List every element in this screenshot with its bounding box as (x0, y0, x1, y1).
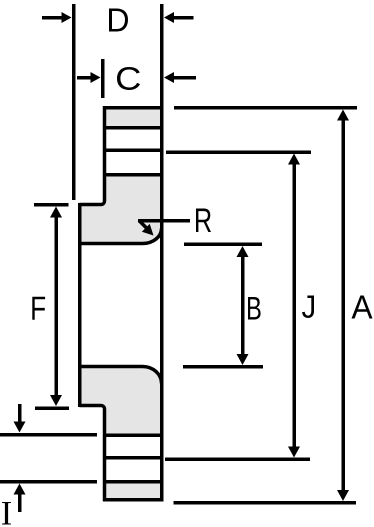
bolt hole line top 2 (103, 148, 163, 152)
flange back face (78, 203, 82, 407)
dimension D arrow left (42, 16, 63, 20)
hub bottom gray band (103, 483, 163, 501)
dimension A extension line bottom (174, 501, 357, 505)
label C (117, 67, 140, 90)
dimension J line (292, 161, 296, 450)
dimension C arrow right (173, 76, 196, 80)
dimension F extension line bottom (35, 406, 69, 410)
flange face line (160, 4, 164, 502)
label R (196, 209, 211, 233)
dimension D arrow right (173, 16, 194, 20)
dimension D extension line left (72, 4, 76, 200)
dimension F extension line top (34, 203, 69, 207)
fillet R leader line (138, 219, 190, 223)
label B (248, 297, 261, 320)
dimension A line (341, 118, 345, 492)
dimension F line (54, 214, 58, 398)
fillet R leader arrowhead (142, 224, 154, 236)
bolt hole line bottom 1 (103, 433, 163, 437)
bolt hole dimension line lower (I) (0, 480, 97, 484)
label J (302, 296, 314, 319)
lower flange gray section (80, 367, 163, 435)
label F (32, 297, 45, 320)
upper flange gray section (80, 174, 163, 244)
flange top edge (103, 106, 163, 110)
dimension A extension line top (174, 106, 357, 110)
bore line top with fillet R (80, 229, 162, 244)
dimension J extension line bottom (165, 457, 310, 461)
label D (109, 9, 128, 32)
hub back edge top (80, 106, 105, 205)
bolt hole line top 1 (103, 126, 163, 130)
dimension B extension line bottom (183, 365, 263, 369)
bolt hole arrow up (I) (18, 493, 22, 512)
hub step bottom (80, 406, 105, 502)
dimension B extension line top (184, 242, 262, 246)
bore line bottom with fillet (80, 367, 162, 384)
bolt hole line bottom 2 (103, 456, 163, 460)
flange bottom edge (103, 498, 163, 502)
label I (2, 502, 11, 525)
dimension B line (241, 254, 245, 358)
bolt hole line bottom 3 (103, 480, 163, 484)
label A (352, 296, 373, 319)
hub top gray band (103, 108, 163, 128)
bolt hole line top 3 (103, 173, 163, 177)
dimension J extension line top (166, 150, 311, 154)
dimension C arrow left (77, 76, 92, 80)
bolt hole arrow down (18, 404, 22, 424)
bolt hole dimension line upper (0, 433, 97, 437)
dimension C tick left (101, 59, 105, 98)
